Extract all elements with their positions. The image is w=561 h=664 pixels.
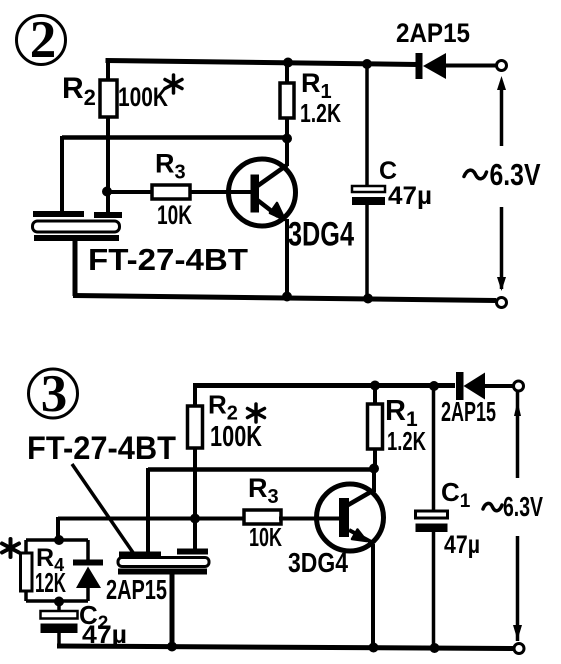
transistor 3DG4 (circuit 2) [229, 159, 296, 226]
wire voltage line lower (circuit 3) [516, 536, 520, 641]
node collector junction [282, 134, 292, 144]
terminal top (circuit 3) [514, 381, 524, 391]
wire voltage line lower [500, 207, 504, 289]
wire top rail left (supply rail to diode) [106, 61, 418, 65]
svg-text:47µ: 47µ [82, 621, 127, 649]
svg-text:1.2K: 1.2K [300, 98, 341, 128]
resistor R2 [100, 61, 117, 213]
wire top rail (circuit 3) [193, 383, 455, 388]
node R1 top junction (circuit 3) [370, 381, 380, 391]
svg-text:10K: 10K [157, 200, 192, 230]
node R4 network top junction [54, 535, 64, 545]
svg-text:3: 3 [41, 365, 68, 423]
wire collector lead [285, 139, 289, 166]
circuit label 2 [17, 11, 66, 69]
wire top rail right (diode to terminal) [445, 64, 496, 68]
wire base corner down to R4 network [56, 517, 60, 540]
diode 2AP15 (shunt, circuit 3) [73, 540, 103, 601]
wire R4 network bottom link [26, 599, 88, 603]
capacitor C1 [416, 381, 448, 648]
capacitor C [352, 64, 385, 299]
terminal bottom (circuit 2) [497, 298, 507, 308]
label ~6.3V (circuit 3) [483, 491, 543, 522]
capacitor C2 [41, 601, 78, 646]
wire piezo left lead (circuit 3) [146, 468, 150, 552]
resistor R1 (circuit 3) [368, 385, 383, 469]
wire voltage line upper (circuit 3) [516, 391, 520, 478]
svg-text:12K: 12K [35, 567, 66, 598]
terminal top (circuit 2) [497, 61, 507, 71]
resistor R2 (circuit 3) [188, 384, 203, 549]
svg-text:C: C [379, 157, 397, 185]
wire bottom rail [73, 296, 496, 301]
arrow down (voltage marker, circuit 3) [513, 625, 522, 640]
node collector junction (circuit 3) [369, 464, 379, 474]
svg-text:FT-27-4BT: FT-27-4BT [88, 242, 248, 277]
resistor R3 (circuit 3) [244, 510, 281, 524]
transistor 3DG4 (circuit 3) [317, 484, 384, 551]
svg-text:2AP15: 2AP15 [396, 18, 470, 48]
wire base right [190, 190, 252, 194]
wire emitter lead [285, 219, 289, 297]
node R1 top junction [283, 58, 293, 68]
wire collector link (circuit 3) [148, 467, 374, 472]
node piezo-rail junction [167, 642, 177, 652]
svg-text:6.3V: 6.3V [490, 157, 541, 192]
node C1-rail junction [430, 643, 440, 653]
wire base left [107, 190, 152, 194]
diode 2AP15 (circuit 3 top) [456, 372, 513, 400]
piezo transducer FT-27-4BT (circuit 3) [118, 549, 209, 575]
label ~6.3V [464, 157, 541, 192]
svg-text:3DG4: 3DG4 [288, 216, 354, 254]
wire voltage line upper [500, 85, 504, 146]
node base junction [102, 187, 112, 197]
wire collector lead (circuit 3) [372, 469, 376, 492]
svg-text:2AP15: 2AP15 [106, 574, 167, 605]
wire base (circuit 3) right [279, 517, 339, 521]
arrow up (voltage marker, circuit 3) [514, 401, 521, 416]
svg-text:6.3V: 6.3V [503, 491, 543, 522]
svg-text:FT-27-4BT: FT-27-4BT [27, 430, 176, 466]
arrow down (voltage marker) [497, 277, 506, 291]
arrow up (voltage marker) [497, 76, 506, 90]
svg-text:47µ: 47µ [444, 531, 480, 559]
diode 2AP15 (circuit 2) [416, 53, 447, 79]
wire piezo left lead [60, 136, 64, 212]
node emitter-rail junction [282, 292, 292, 302]
wire R4 network top link [26, 538, 88, 542]
svg-text:2AP15: 2AP15 [441, 396, 496, 427]
wire emitter lead (circuit 3) [371, 544, 375, 648]
resistor R4 [21, 540, 33, 601]
wire piezo bottom lead (circuit 3) [170, 574, 175, 647]
node C branch junction [362, 59, 372, 69]
resistor R1 [280, 63, 294, 139]
node C-rail junction [363, 294, 373, 304]
svg-text:10K: 10K [249, 522, 282, 552]
circuit label 3 [29, 365, 78, 423]
wire collector link (piezo left electrode to collector) [62, 135, 288, 140]
svg-text:100K: 100K [210, 421, 262, 453]
svg-text:47µ: 47µ [388, 182, 432, 210]
asterisk (100K) [165, 75, 182, 93]
svg-text:3DG4: 3DG4 [288, 547, 348, 578]
asterisk (R2 circuit 3) [248, 404, 265, 422]
wire piezo bottom lead [73, 241, 78, 296]
node base junction (circuit 3) [190, 514, 200, 524]
svg-text:1.2K: 1.2K [387, 426, 426, 456]
terminal bottom (circuit 3) [514, 644, 524, 654]
piezo transducer FT-27-4BT (circuit 2) [33, 211, 123, 241]
svg-text:2: 2 [30, 11, 57, 69]
node emitter-rail junction (circuit 3) [369, 643, 379, 653]
wire bottom rail (circuit 3) [57, 646, 513, 649]
wire base (circuit 3) left [58, 517, 243, 521]
resistor R3 [152, 185, 190, 199]
asterisk (R4) [2, 539, 19, 557]
svg-text:100K: 100K [118, 82, 168, 112]
node R4 network bottom junction [54, 597, 64, 607]
annotation leader line [72, 464, 134, 554]
